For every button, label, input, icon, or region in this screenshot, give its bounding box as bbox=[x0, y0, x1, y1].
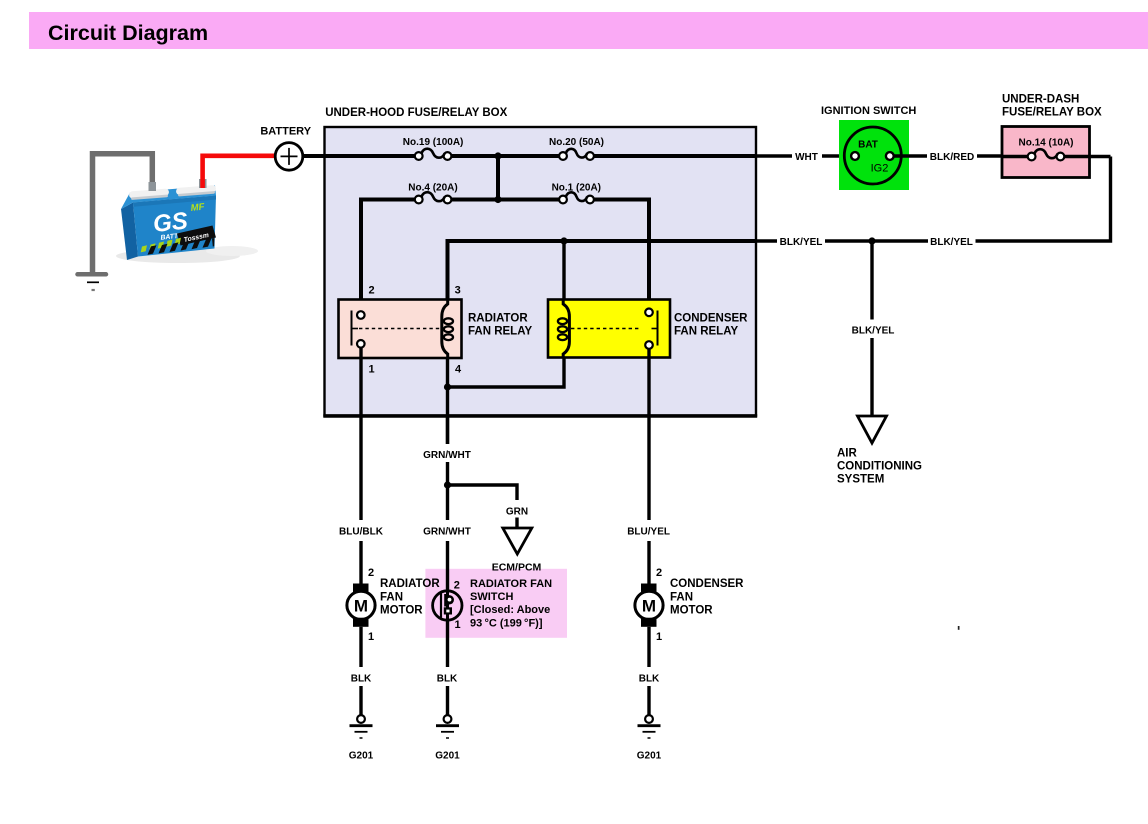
svg-text:UNDER-HOOD FUSE/RELAY BOX: UNDER-HOOD FUSE/RELAY BOX bbox=[325, 107, 507, 119]
junction row1 bbox=[494, 152, 501, 159]
wire relay4 to condenser coil bbox=[448, 357, 565, 387]
relay contact bar (condenser) bbox=[657, 311, 659, 346]
battery front face bbox=[133, 196, 216, 257]
arrow to air conditioning system bbox=[858, 416, 887, 443]
svg-text:GRN/WHT: GRN/WHT bbox=[423, 527, 471, 538]
svg-text:M: M bbox=[354, 596, 368, 615]
wire ignition to under-dash bbox=[894, 154, 927, 157]
arrow to ECM/PCM bbox=[503, 528, 532, 554]
ground G201 col3 bbox=[638, 715, 661, 738]
svg-text:2: 2 bbox=[454, 580, 460, 592]
junction row2 bbox=[494, 196, 501, 203]
radiator fan relay bbox=[339, 300, 462, 359]
relay coil bbox=[442, 300, 448, 358]
wire col2 junction segment bbox=[446, 462, 449, 520]
wire col3 to ground bbox=[647, 686, 650, 715]
svg-text:BATTERY: BATTERY bbox=[260, 126, 311, 138]
svg-text:RADIATOR: RADIATOR bbox=[468, 313, 528, 325]
svg-text:BLK: BLK bbox=[437, 674, 458, 685]
radiator fan switch symbol bbox=[433, 591, 462, 621]
svg-text:MOTOR: MOTOR bbox=[670, 605, 713, 617]
wire row3 inside box bbox=[448, 241, 757, 300]
svg-text:3: 3 bbox=[455, 285, 461, 297]
svg-text:No.1 (20A): No.1 (20A) bbox=[552, 183, 601, 194]
wire col3 below motor bbox=[647, 627, 650, 667]
svg-text:GRN: GRN bbox=[506, 507, 528, 518]
svg-text:FAN: FAN bbox=[380, 592, 403, 604]
svg-text:BAT: BAT bbox=[858, 140, 878, 151]
svg-text:No.4 (20A): No.4 (20A) bbox=[408, 183, 457, 194]
wire positive battery cable (red) bbox=[203, 156, 276, 188]
svg-text:No.19 (100A): No.19 (100A) bbox=[403, 137, 464, 148]
svg-text:BLU/YEL: BLU/YEL bbox=[627, 527, 670, 538]
relay coil (condenser) bbox=[563, 300, 569, 357]
svg-text:G201: G201 bbox=[435, 751, 460, 762]
svg-text:4: 4 bbox=[455, 364, 462, 376]
battery banner bbox=[177, 226, 216, 246]
svg-text:2: 2 bbox=[368, 567, 374, 579]
wire col2 to ground bbox=[446, 686, 449, 715]
relay pin circle bottom (condenser) bbox=[645, 341, 653, 349]
svg-text:FAN RELAY: FAN RELAY bbox=[674, 326, 738, 338]
svg-text:MF: MF bbox=[190, 202, 205, 214]
condenser fan relay bbox=[548, 300, 670, 358]
ground chassis (battery) bbox=[78, 274, 107, 290]
svg-text:FUSE/RELAY BOX: FUSE/RELAY BOX bbox=[1002, 107, 1102, 119]
wire condenser contact down bbox=[647, 349, 650, 520]
fuse No.20 (50A) bbox=[559, 149, 594, 160]
svg-text:No.20 (50A): No.20 (50A) bbox=[549, 137, 604, 148]
svg-text:G201: G201 bbox=[637, 751, 662, 762]
relay pin 2 circle bbox=[357, 311, 365, 319]
svg-text:MOTOR: MOTOR bbox=[380, 605, 423, 617]
wire col2 stub below box bbox=[446, 416, 449, 445]
wire row3 middle segment bbox=[825, 239, 928, 242]
fuse No.14 (10A) bbox=[1028, 149, 1065, 160]
svg-text:CONDITIONING: CONDITIONING bbox=[837, 461, 922, 473]
terminal IG2 bbox=[886, 152, 894, 160]
relay dashed link bbox=[359, 328, 442, 330]
svg-text:BLK/YEL: BLK/YEL bbox=[780, 237, 823, 248]
junction AC branch bbox=[868, 237, 875, 244]
wire GRN branch bbox=[448, 485, 518, 500]
ground G201 col2 bbox=[436, 715, 459, 738]
wire battery terminal to fuse box bbox=[302, 154, 325, 158]
relay pin 1 circle bbox=[357, 340, 365, 348]
wire condenser coil drop bbox=[562, 241, 565, 300]
svg-text:SWITCH: SWITCH bbox=[470, 591, 513, 603]
svg-text:1: 1 bbox=[454, 619, 460, 631]
svg-text:FAN RELAY: FAN RELAY bbox=[468, 326, 532, 338]
wire col2 to switch bbox=[446, 541, 449, 592]
junction row3 condenser coil bbox=[560, 237, 567, 244]
fuse No.1 (20A) bbox=[559, 192, 594, 203]
svg-text:IGNITION SWITCH: IGNITION SWITCH bbox=[821, 105, 916, 117]
relay dashed link (condenser) bbox=[571, 328, 641, 330]
svg-text:FAN: FAN bbox=[670, 592, 693, 604]
battery left dark face bbox=[121, 203, 138, 261]
svg-text:M: M bbox=[642, 596, 656, 615]
svg-text:BLK/RED: BLK/RED bbox=[930, 152, 974, 163]
title bar bbox=[29, 12, 1148, 49]
wire row3 into box bbox=[756, 239, 777, 242]
wire through under-dash box bbox=[1002, 155, 1028, 158]
wire row1-row2 drop bbox=[496, 156, 500, 200]
wire AC branch upper bbox=[870, 241, 873, 320]
wire col1 below motor bbox=[359, 627, 362, 667]
fuse No.19 (100A) bbox=[415, 149, 452, 160]
svg-text:IG2: IG2 bbox=[871, 163, 889, 175]
relay pin circle top (condenser) bbox=[645, 309, 653, 317]
svg-text:UNDER-DASH: UNDER-DASH bbox=[1002, 94, 1079, 106]
battery handles bbox=[129, 188, 169, 198]
radiator fan switch highlight box bbox=[425, 569, 567, 638]
svg-text:2: 2 bbox=[368, 285, 374, 297]
wire col3 to motor bbox=[647, 541, 650, 584]
terminal BAT bbox=[851, 152, 859, 160]
battery green stripes bbox=[141, 238, 181, 253]
battery black stripes bbox=[148, 238, 215, 255]
svg-text:1: 1 bbox=[368, 631, 374, 643]
svg-text:1: 1 bbox=[656, 631, 662, 643]
under-dash fuse/relay box bbox=[1002, 127, 1090, 178]
wire pin4 down bbox=[446, 387, 449, 444]
wire row2 bbox=[361, 200, 649, 312]
wire col2 below switch bbox=[446, 620, 449, 667]
battery posts bbox=[149, 182, 157, 191]
battery GS logo bbox=[151, 202, 207, 243]
svg-text:ECM/PCM: ECM/PCM bbox=[492, 562, 542, 574]
battery illustration bbox=[116, 179, 258, 263]
wire negative battery cable bbox=[93, 154, 153, 272]
tiny tick mark right bbox=[958, 626, 960, 630]
svg-text:BLK/YEL: BLK/YEL bbox=[852, 326, 895, 337]
wire GRN to ECM arrow bbox=[515, 518, 518, 529]
svg-text:BLK: BLK bbox=[351, 674, 372, 685]
radiator fan motor bbox=[347, 584, 375, 627]
wire row1 to ignition bbox=[756, 154, 792, 157]
wire row1 bus bbox=[325, 154, 756, 158]
battery top face bbox=[121, 186, 216, 210]
svg-text:2: 2 bbox=[656, 567, 662, 579]
junction relay pin4 bbox=[444, 383, 451, 390]
wire pin1 down bbox=[359, 348, 362, 520]
svg-text:GRN/WHT: GRN/WHT bbox=[423, 450, 471, 461]
svg-text:RADIATOR: RADIATOR bbox=[380, 578, 440, 590]
svg-text:93 °C (199 °F)]: 93 °C (199 °F)] bbox=[470, 617, 543, 629]
ground G201 col1 bbox=[350, 715, 373, 738]
under-hood fuse/relay box bbox=[325, 127, 757, 416]
wire col1 to ground bbox=[359, 686, 362, 715]
wire AC branch lower bbox=[870, 338, 873, 416]
svg-text:BLK/YEL: BLK/YEL bbox=[930, 237, 973, 248]
svg-text:[Closed: Above: [Closed: Above bbox=[470, 604, 550, 616]
svg-text:Circuit Diagram: Circuit Diagram bbox=[48, 21, 208, 45]
svg-text:BLU/BLK: BLU/BLK bbox=[339, 527, 384, 538]
svg-text:RADIATOR FAN: RADIATOR FAN bbox=[470, 578, 552, 590]
condenser fan motor bbox=[635, 584, 663, 627]
svg-text:SYSTEM: SYSTEM bbox=[837, 474, 884, 486]
svg-text:CONDENSER: CONDENSER bbox=[674, 313, 748, 325]
relay contact bar bbox=[351, 311, 353, 346]
svg-text:G201: G201 bbox=[349, 751, 374, 762]
svg-text:CONDENSER: CONDENSER bbox=[670, 578, 744, 590]
battery terminal symbol bbox=[275, 143, 303, 171]
svg-text:BLK: BLK bbox=[639, 674, 660, 685]
svg-text:AIR: AIR bbox=[837, 448, 858, 460]
wire under-dash return loop bbox=[976, 157, 1111, 242]
svg-text:No.14 (10A): No.14 (10A) bbox=[1018, 138, 1073, 149]
wire col1 to motor bbox=[359, 541, 362, 584]
svg-text:1: 1 bbox=[368, 364, 374, 376]
svg-text:WHT: WHT bbox=[795, 152, 818, 163]
junction GRN branch bbox=[444, 481, 451, 488]
fuse No.4 (20A) bbox=[415, 192, 452, 203]
ignition switch bbox=[839, 120, 909, 190]
